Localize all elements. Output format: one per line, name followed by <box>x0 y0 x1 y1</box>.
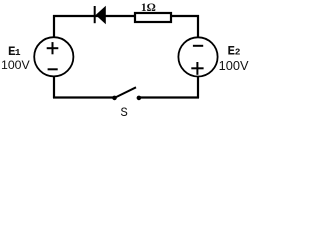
svg-text:S: S <box>120 106 128 120</box>
svg-text:E2: E2 <box>228 45 241 59</box>
svg-text:E1: E1 <box>8 45 21 59</box>
svg-text:100V: 100V <box>219 58 249 73</box>
svg-text:100V: 100V <box>1 58 31 72</box>
svg-text:1Ω: 1Ω <box>141 2 156 14</box>
